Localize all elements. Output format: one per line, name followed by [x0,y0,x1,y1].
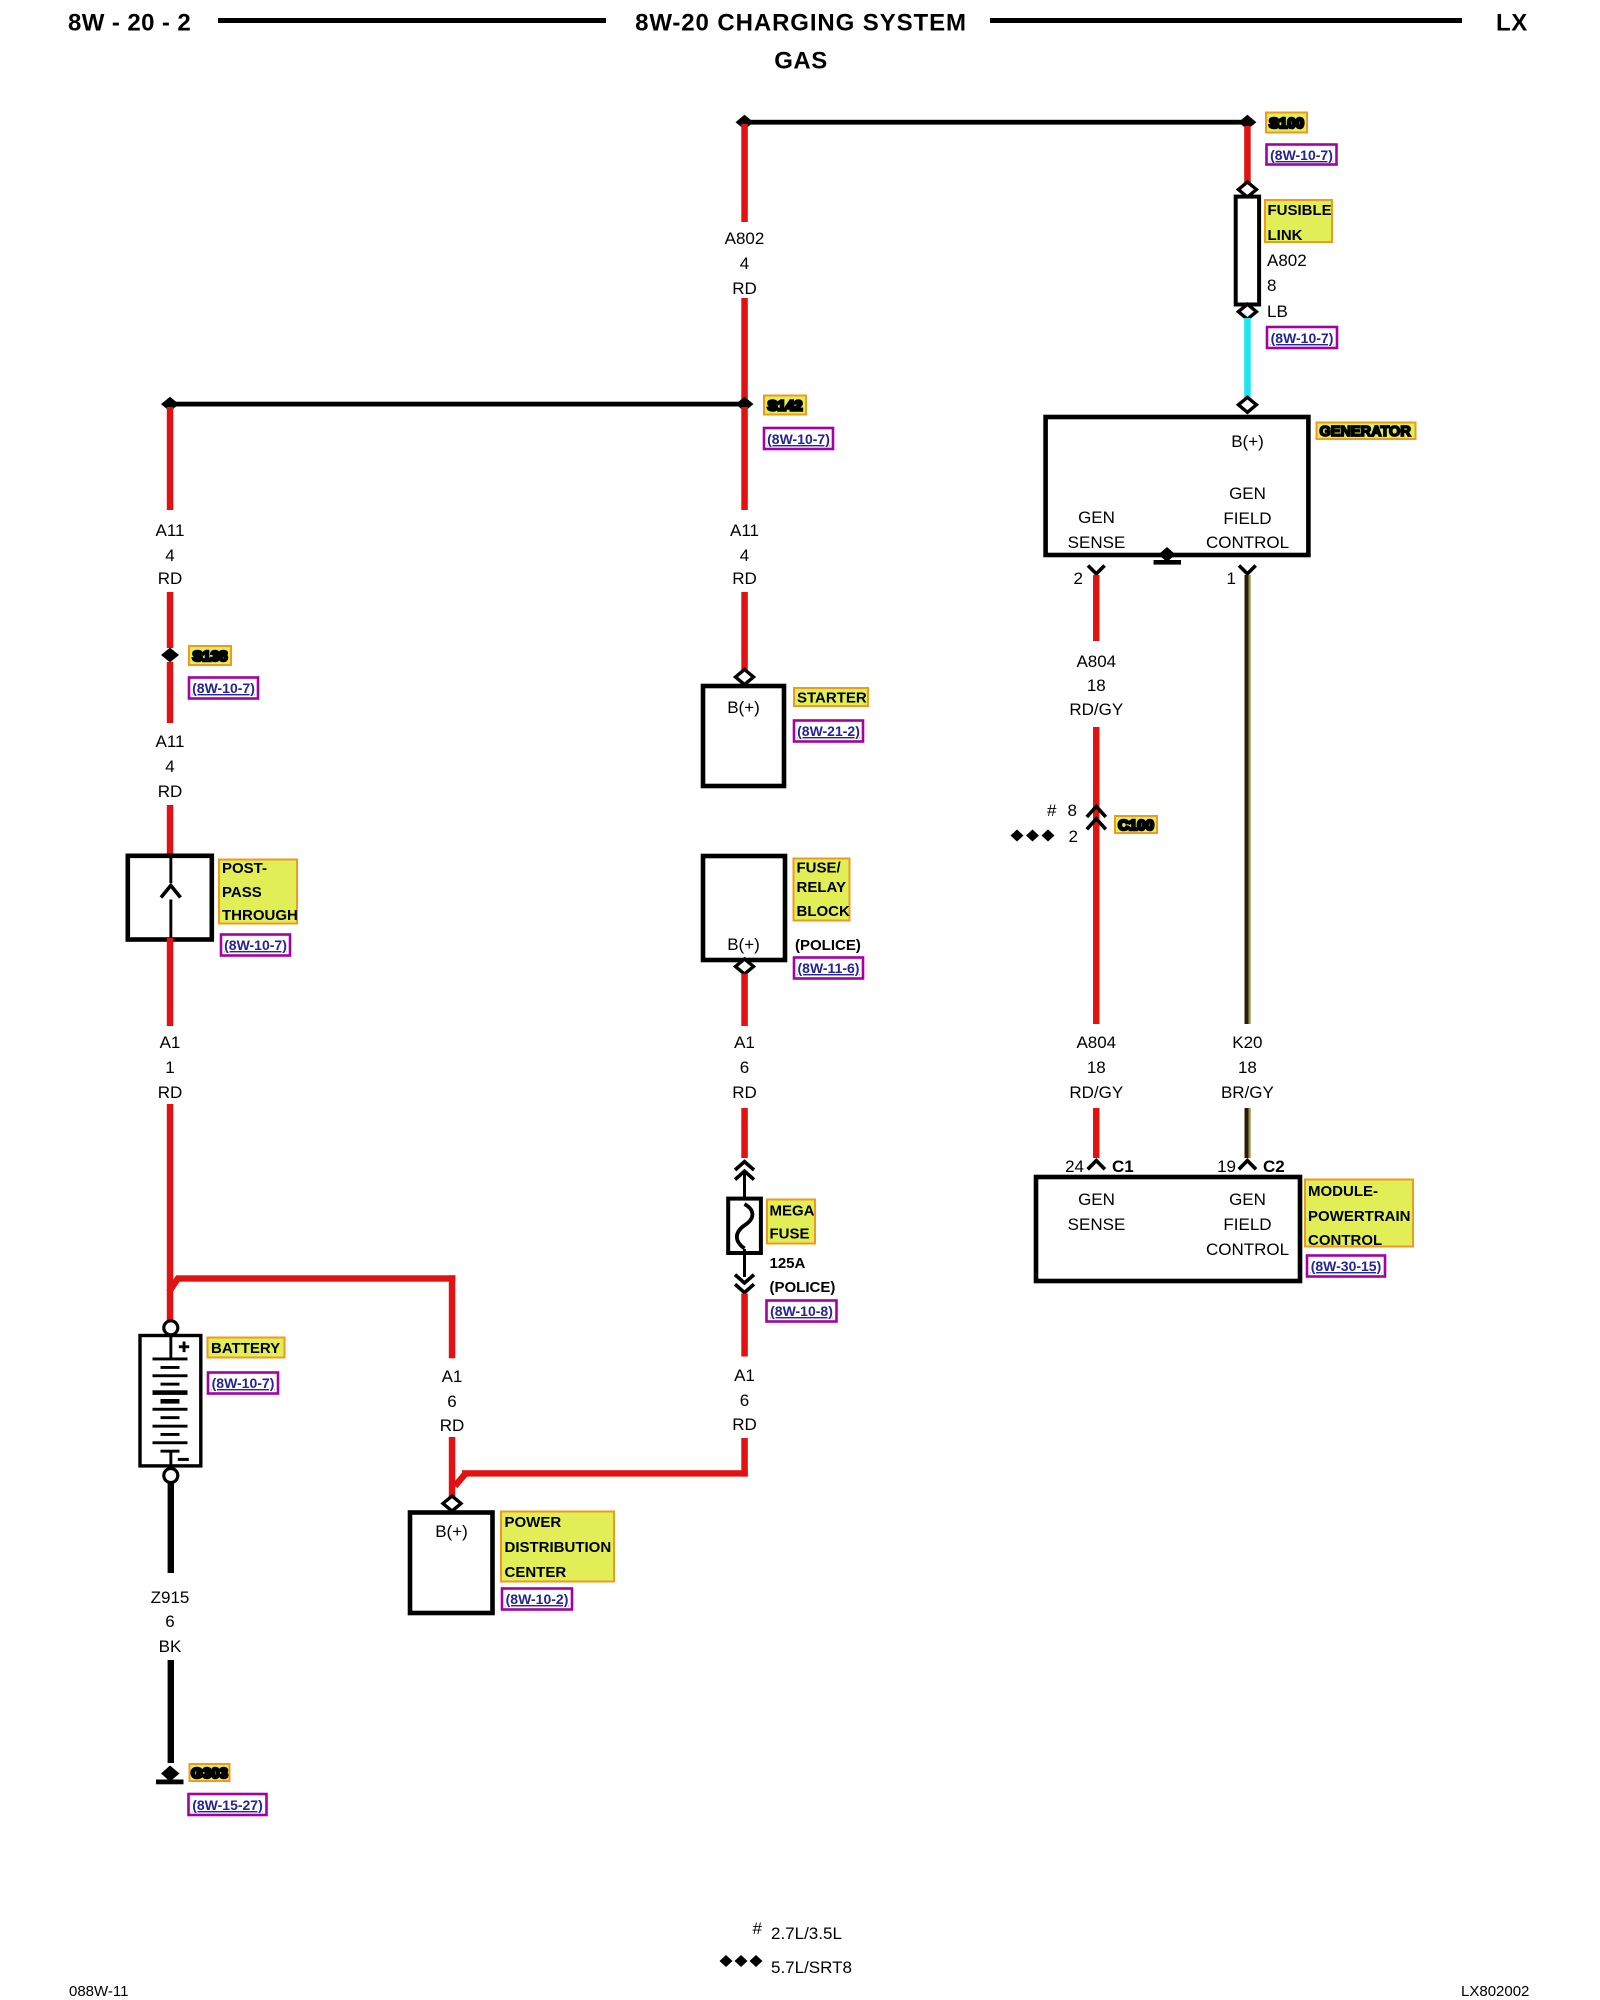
label diamonds 2 at C100 [1011,827,1079,846]
wire: battery positive branch horizontal (red) [176,1275,455,1281]
pin lead inside post-pass through (lower) [169,900,172,939]
svg-text:C100: C100 [1118,817,1154,834]
mega fuse bottom lead (black) [743,1249,746,1277]
svg-text:B(+): B(+) [727,698,760,717]
connector chevron generator pin 2 [1088,566,1105,574]
svg-text:4: 4 [165,757,174,776]
wire A1 6 RD right branch upper (red) [449,1275,456,1358]
svg-text:STARTER: STARTER [797,690,867,707]
link (8W-30-15) under PCM [1307,1256,1385,1277]
wire: horizontal from mega fuse to PDC (red) [462,1470,748,1476]
component GENERATOR box [1046,417,1309,555]
svg-text:MODULE-: MODULE- [1308,1183,1378,1200]
label GENERATOR [1317,423,1416,441]
svg-text:6: 6 [165,1612,174,1631]
svg-text:1: 1 [165,1058,174,1077]
connector chevron PCM pin 19 [1239,1161,1256,1170]
svg-text:(POLICE): (POLICE) [770,1279,836,1296]
svg-text:S138: S138 [192,648,227,665]
svg-text:A1: A1 [442,1367,463,1386]
header page number 8W-20-2 [68,10,191,37]
component POST-PASS THROUGH box [128,856,212,940]
svg-text:RD: RD [732,1415,757,1434]
svg-text:MEGA: MEGA [770,1203,815,1220]
wire A802 4 RD lower segment (red) [741,298,748,401]
svg-text:(8W-10-7): (8W-10-7) [224,937,287,953]
label S138 [189,646,231,665]
header rule right [990,18,1462,23]
link (8W-15-27) under G303 [189,1794,267,1815]
label STARTER [794,688,868,707]
svg-text:DISTRIBUTION: DISTRIBUTION [505,1539,612,1556]
battery bottom stem [169,1451,172,1467]
svg-text:088W-11: 088W-11 [69,1983,128,2000]
header LX [1496,10,1528,37]
label C100 [1115,816,1157,834]
link (8W-10-7) under S100 [1267,145,1337,165]
svg-text:#: # [1047,801,1057,820]
svg-text:BR/GY: BR/GY [1221,1083,1274,1102]
svg-text:FIELD: FIELD [1223,1215,1271,1234]
label FUSIBLE LINK [1265,200,1332,244]
svg-text:24: 24 [1065,1157,1084,1176]
pin label GEN FIELD CONTROL (PCM) [1206,1190,1289,1259]
component POWER DISTRIBUTION CENTER box [410,1513,493,1614]
label S100 [1266,113,1307,133]
svg-text:(8W-10-7): (8W-10-7) [767,431,830,447]
label # 8 at C100 [1047,801,1077,820]
label 125A [770,1255,806,1272]
svg-text:A11: A11 [156,521,185,540]
pin label B(+) starter [727,698,760,717]
wire: diagonal joint at battery positive [169,1278,179,1293]
svg-text:CONTROL: CONTROL [1206,533,1289,552]
svg-text:LINK: LINK [1268,227,1303,244]
wire A804 lower segment to PCM (red) [1093,1108,1100,1158]
wire from S100 to fusible link (red) [1244,126,1251,184]
svg-text:A804: A804 [1076,1033,1116,1052]
svg-text:A1: A1 [160,1033,181,1052]
svg-text:CENTER: CENTER [505,1564,567,1581]
component MEGA FUSE box [728,1199,761,1253]
svg-text:4: 4 [740,254,749,273]
label wire A804 18 RD/GY (upper) [1069,652,1123,719]
wire A1 6 RD upper segment middle column (red) [741,974,748,1026]
wire A804 18 RD/GY upper segment (red) [1093,575,1100,641]
connector diamond at fusible link top [1238,182,1256,197]
svg-text:G303: G303 [191,1765,228,1782]
label MODULE-POWERTRAIN CONTROL [1305,1180,1413,1250]
component MODULE-POWERTRAIN CONTROL box [1036,1177,1300,1281]
label FUSE/RELAY BLOCK [794,859,850,921]
pin lead inside post-pass through (upper) [169,858,172,883]
wire segment into mega fuse connector (red) [741,1108,748,1158]
label (POLICE) fuse/relay block [795,937,861,954]
link (8W-21-2) under starter [794,721,863,742]
svg-text:GEN: GEN [1078,508,1115,527]
pin label B(+) PDC [435,1522,468,1541]
wire A1 6 RD below mega fuse (red) [741,1294,748,1357]
svg-text:CONTROL: CONTROL [1308,1232,1382,1249]
pin 24 label and C1 [1065,1157,1134,1176]
svg-text:C2: C2 [1263,1157,1285,1176]
svg-text:RD/GY: RD/GY [1069,1083,1123,1102]
connector chevron inside post-pass through [161,886,181,898]
pin 19 label and C2 [1217,1157,1285,1176]
pin label GEN SENSE (PCM) [1068,1190,1126,1234]
component FUSE/RELAY BLOCK box [703,856,785,960]
connector diamond at starter B(+) [736,670,754,685]
label S142 [764,396,806,415]
svg-text:(8W-10-7): (8W-10-7) [1271,330,1334,346]
mega fuse top lead (black) [743,1172,746,1207]
wire A802 8 LB (light blue) [1244,318,1251,398]
svg-text:8W - 20 - 2: 8W - 20 - 2 [68,10,191,37]
svg-text:GEN: GEN [1229,484,1266,503]
pin 2 label (generator) [1074,569,1083,588]
svg-text:1: 1 [1227,569,1236,588]
header subtitle GAS [774,48,828,75]
svg-text:K20: K20 [1232,1033,1262,1052]
svg-text:2: 2 [1074,569,1083,588]
svg-text:8: 8 [1267,276,1276,295]
svg-text:A1: A1 [734,1366,755,1385]
svg-text:(8W-11-6): (8W-11-6) [798,960,860,976]
svg-text:6: 6 [740,1391,749,1410]
label wire A802 4 RD (middle column) [725,229,765,298]
node: junction diamond left end of top bus [736,115,754,130]
label wire A804 18 RD/GY (lower) [1069,1033,1123,1102]
svg-text:BATTERY: BATTERY [211,1340,280,1357]
battery B1 negative terminal circle [164,1469,178,1483]
wire K20 lower segment to PCM (dark brown/olive) [1245,1108,1251,1158]
svg-text:8: 8 [1068,801,1077,820]
footer drawing number LX802002 [1461,1983,1529,2000]
svg-text:8W-20 CHARGING SYSTEM: 8W-20 CHARGING SYSTEM [635,10,967,37]
wire A804 segment through C100 (red) [1093,727,1100,1024]
wire into post-pass through (red) [167,805,174,860]
battery minus sign [178,1458,189,1461]
footer sheet number 088W-11 [69,1983,128,2000]
wire A11 4 RD upper segment middle column (red) [741,407,748,510]
svg-text:POST-: POST- [222,860,267,877]
link (8W-10-7) under post-pass through [221,935,290,956]
svg-text:THROUGH: THROUGH [222,907,298,924]
svg-text:RD: RD [732,569,757,588]
label wire A1 6 RD (branch to PDC) [440,1367,465,1435]
svg-text:A11: A11 [156,732,185,751]
svg-text:(8W-10-8): (8W-10-8) [770,1303,833,1319]
svg-text:GENERATOR: GENERATOR [1320,424,1412,440]
svg-text:GEN: GEN [1078,1190,1115,1209]
svg-text:GEN: GEN [1229,1190,1266,1209]
legend # 2.7L/3.5L [753,1919,842,1943]
svg-text:S142: S142 [767,398,802,415]
ground G303 symbol [156,1766,184,1785]
battery B1 positive terminal circle [164,1321,178,1335]
link (8W-10-7) under S142 [764,428,833,449]
node S100 junction diamond [1238,115,1256,130]
label wire Z915 6 BK [151,1588,190,1656]
link (8W-10-8) under mega fuse [767,1301,837,1322]
label BATTERY [208,1338,285,1358]
svg-text:C1: C1 [1112,1157,1134,1176]
svg-text:RD: RD [158,782,183,801]
svg-text:B(+): B(+) [1231,432,1264,451]
wire: S142 bus (black) [170,402,745,407]
connector diamond at fusible link bottom [1238,304,1256,319]
svg-text:4: 4 [165,546,174,565]
svg-text:6: 6 [740,1058,749,1077]
svg-text:A802: A802 [1267,251,1307,270]
svg-text:18: 18 [1238,1058,1257,1077]
label wire A1 6 RD (below mega fuse) [732,1366,757,1434]
svg-text:(8W-15-27): (8W-15-27) [192,1797,263,1813]
battery plates [153,1358,188,1453]
wire segment down to PDC feed (red) [741,1438,748,1477]
svg-text:2: 2 [1069,827,1078,846]
node S142 junction diamond [736,397,754,412]
svg-text:GAS: GAS [774,48,828,75]
link (8W-10-7) under battery [208,1373,278,1394]
wire into starter (red) [741,592,748,671]
svg-text:#: # [753,1919,763,1938]
svg-text:FIELD: FIELD [1223,509,1271,528]
link (8W-11-6) under fuse/relay block [794,958,863,979]
wire A11 4 RD upper segment left column (red) [167,407,174,510]
connector diamond below fuse/relay block [736,959,754,974]
svg-text:19: 19 [1217,1157,1236,1176]
battery top stem [169,1336,172,1360]
label wire A1 1 RD [158,1033,183,1102]
svg-text:(8W-10-7): (8W-10-7) [192,680,255,696]
label wire A802 8 LB [1267,251,1307,321]
wire: diagonal joint at PDC drop [455,1473,466,1486]
svg-text:BLOCK: BLOCK [797,903,850,920]
label POST-PASS THROUGH [219,860,298,925]
connector diamond at PDC B(+) [443,1496,461,1511]
link (8W-10-7) under fusible link [1267,327,1337,348]
svg-text:PASS: PASS [222,884,262,901]
wire A1 6 RD right branch lower (red) [449,1437,456,1499]
connector C100 chevrons [1087,806,1106,829]
svg-text:RD: RD [158,1083,183,1102]
svg-text:A804: A804 [1076,652,1116,671]
svg-text:FUSIBLE: FUSIBLE [1268,202,1332,219]
battery B1 case box [140,1336,201,1466]
label wire A1 6 RD (above mega fuse) [732,1033,757,1102]
connector chevrons above mega fuse [735,1162,754,1180]
link (8W-10-2) under PDC [502,1589,572,1610]
svg-text:2.7L/3.5L: 2.7L/3.5L [771,1924,842,1943]
svg-text:125A: 125A [770,1255,806,1272]
wire A1 1 RD battery feed lower segment (red) [167,1104,174,1320]
connector chevrons below mega fuse [735,1275,754,1293]
svg-text:(8W-21-2): (8W-21-2) [797,723,860,739]
label G303 [190,1764,230,1782]
svg-text:FUSE/: FUSE/ [797,860,842,877]
svg-text:FUSE: FUSE [770,1226,810,1243]
wire segment below S138 (red) [167,662,174,723]
svg-text:A11: A11 [730,521,759,540]
wire A1 1 RD battery feed upper segment (red) [167,938,174,1026]
svg-text:(POLICE): (POLICE) [795,937,861,954]
connector diamond at generator B(+) [1238,397,1256,412]
svg-text:18: 18 [1087,676,1106,695]
svg-text:4: 4 [740,546,749,565]
label wire A11 4 RD (left column lower) [156,732,185,801]
svg-text:RD: RD [440,1416,465,1435]
svg-text:RELAY: RELAY [797,879,846,896]
label POWER DISTRIBUTION CENTER [501,1512,614,1582]
svg-text:POWERTRAIN: POWERTRAIN [1308,1208,1411,1225]
label wire K20 18 BR/GY [1221,1033,1274,1102]
connector chevron PCM pin 24 [1088,1161,1105,1170]
svg-text:RD: RD [732,1083,757,1102]
pin label B(+) generator [1231,432,1264,451]
wire A802 4 RD upper segment (red, middle column) [741,124,748,222]
link (8W-10-7) under S138 [189,678,258,699]
node S138 junction diamond [161,648,179,663]
label wire A11 4 RD (left column upper) [156,521,185,588]
svg-text:B(+): B(+) [435,1522,468,1541]
svg-text:A1: A1 [734,1033,755,1052]
svg-text:(8W-30-15): (8W-30-15) [1311,1258,1382,1274]
connector chevron generator pin 1 [1239,566,1256,574]
svg-text:RD: RD [732,279,757,298]
svg-text:LX: LX [1496,10,1528,37]
label wire A11 4 RD (middle column) [730,521,759,588]
ground: generator case ground symbol [1154,547,1182,565]
svg-text:LB: LB [1267,302,1288,321]
component STARTER box [703,686,784,786]
pin label GEN SENSE (generator) [1068,508,1126,552]
svg-text:SENSE: SENSE [1068,533,1126,552]
svg-text:(8W-10-2): (8W-10-2) [506,1591,569,1607]
svg-text:A802: A802 [725,229,765,248]
pin label GEN FIELD CONTROL (generator) [1206,484,1289,552]
wire K20 18 BR/GY upper segment (dark brown/olive) [1245,575,1251,1024]
header rule left [218,18,606,23]
svg-text:LX802002: LX802002 [1461,1983,1529,2000]
header title 8W-20 CHARGING SYSTEM [635,10,967,37]
svg-text:POWER: POWER [505,1514,562,1531]
wire segment above S138 (red) [167,592,174,648]
svg-text:BK: BK [159,1637,182,1656]
pin label B(+) fuse/relay block [727,935,760,954]
svg-text:(8W-10-7): (8W-10-7) [1270,147,1333,163]
svg-text:6: 6 [447,1392,456,1411]
svg-text:RD: RD [158,569,183,588]
wire Z915 6 BK upper segment (black) [168,1483,174,1573]
pin 1 label (generator) [1227,569,1236,588]
svg-text:(8W-10-7): (8W-10-7) [212,1375,275,1391]
label (POLICE) mega fuse [770,1279,836,1296]
wire: top bus from S142 column to S100 (black) [745,120,1248,125]
battery plus sign [179,1342,189,1353]
node: junction diamond left end of S142 bus [161,397,179,412]
svg-text:S100: S100 [1269,115,1304,132]
component FUSIBLE LINK body [1236,197,1259,305]
wire Z915 6 BK lower segment (black) [168,1660,174,1763]
label MEGA FUSE [767,1200,815,1244]
svg-text:5.7L/SRT8: 5.7L/SRT8 [771,1958,852,1977]
svg-text:SENSE: SENSE [1068,1215,1126,1234]
svg-text:CONTROL: CONTROL [1206,1240,1289,1259]
svg-text:Z915: Z915 [151,1588,190,1607]
svg-text:B(+): B(+) [727,935,760,954]
svg-text:18: 18 [1087,1058,1106,1077]
svg-text:RD/GY: RD/GY [1069,700,1123,719]
mega fuse element squiggle [737,1204,753,1249]
legend diamonds 5.7L/SRT8 [720,1955,852,1977]
